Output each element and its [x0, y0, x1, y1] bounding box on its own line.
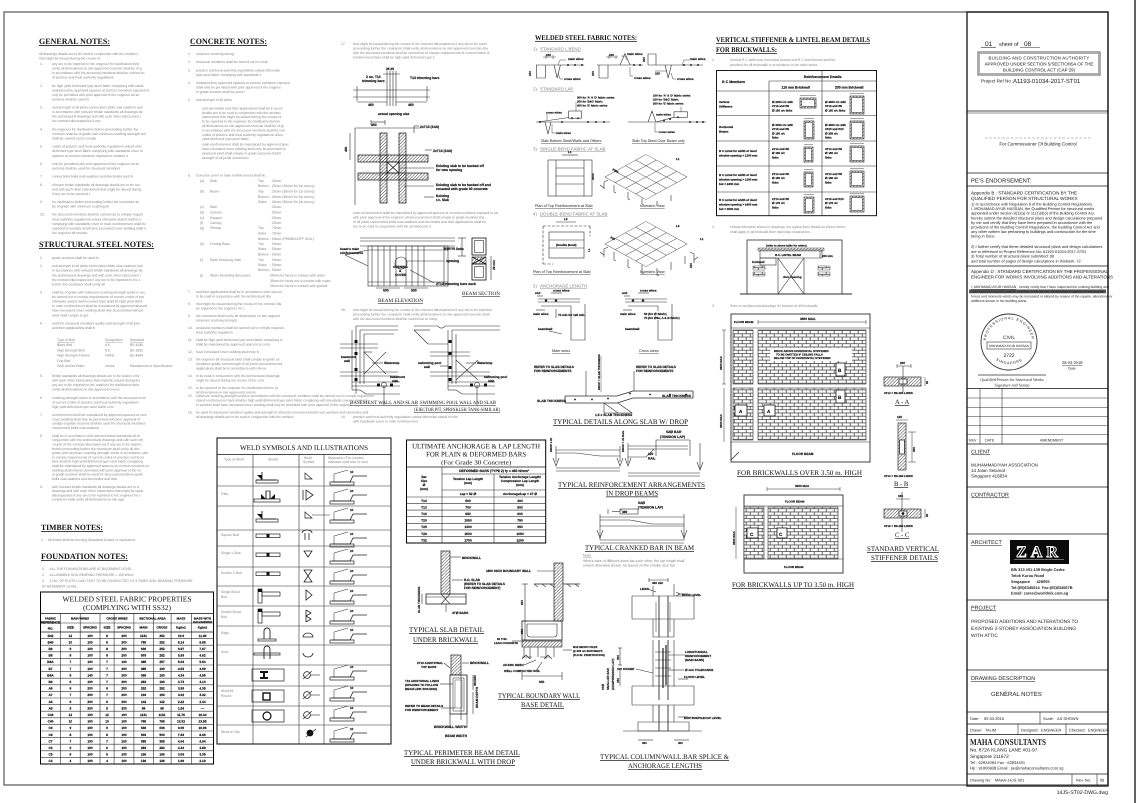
svg-text:98: 98: [142, 706, 146, 710]
svg-text:GENERAL NOTES:: GENERAL NOTES:: [39, 37, 110, 46]
svg-text:08: 08: [1024, 41, 1032, 48]
svg-text:2.: 2.: [188, 60, 191, 64]
svg-text:T16: T16: [421, 512, 427, 516]
svg-text:5: 5: [70, 706, 72, 710]
svg-text:Singapore 428005: Singapore 428005: [1011, 579, 1050, 584]
svg-text:C8: C8: [48, 733, 52, 737]
svg-text:7: 7: [70, 739, 72, 743]
stiffener note 1: [712, 58, 835, 67]
svg-text:TYPICAL PERIMETER BEAM DETAIL: TYPICAL PERIMETER BEAM DETAIL: [404, 749, 520, 757]
svg-text:6: 6: [106, 700, 108, 704]
svg-text:Tel : 62924094 Fax : 62934401: Tel : 62924094 Fax : 62934401: [970, 760, 1026, 765]
commissioner section: [967, 138, 1108, 173]
svg-text:links: links: [772, 155, 779, 159]
svg-text:2000: 2000: [591, 173, 595, 180]
svg-text:142: 142: [141, 700, 147, 704]
svg-text:3.32: 3.32: [199, 693, 205, 697]
svg-text:: 50mm (PREMIX/OFF SOIL): : 50mm (PREMIX/OFF SOIL): [270, 237, 314, 241]
svg-text:FOR REINFORCEMENT: FOR REINFORCEMENT: [405, 708, 439, 712]
figure: section C-C: [884, 492, 929, 539]
svg-text:Refer to architectural drawing: Refer to architectural drawings for loca…: [730, 304, 818, 308]
svg-text:5: 5: [106, 753, 108, 757]
svg-text:Bottom: Bottom: [258, 195, 269, 199]
svg-text:SWIMMING POOL WALL AND SLAB: SWIMMING POOL WALL AND SLAB: [420, 400, 497, 406]
svg-text:2xT13 (3A6): 2xT13 (3A6): [433, 149, 452, 153]
svg-text:used for structural members qu: used for structural members quality and …: [52, 321, 140, 325]
heading CONCRETE NOTES: [190, 37, 267, 46]
figure: section A-A: [884, 361, 929, 406]
svg-text:450: 450: [344, 146, 348, 152]
svg-text:: 25mm: : 25mm: [270, 179, 281, 183]
svg-text:to main reinforcement shall be: to main reinforcement shall be maintaine…: [52, 304, 148, 308]
svg-text:100: 100: [87, 713, 93, 717]
svg-text:1.5 x SLAB THICKNESS: 1.5 x SLAB THICKNESS: [595, 413, 633, 417]
svg-text:Reinforcement Details: Reinforcement Details: [804, 75, 842, 79]
svg-text:Sketch: Sketch: [268, 458, 278, 462]
svg-text:I, MOHAMAD AYUB HASSAN , hereb: I, MOHAMAD AYUB HASSAN , hereby certify …: [971, 285, 1109, 289]
svg-text:Concrete cover to main reinfor: Concrete cover to main reinforcement sha…: [196, 174, 267, 178]
svg-text:but < 3600 mm: but < 3600 mm: [719, 207, 740, 211]
svg-text:wall: wall: [423, 365, 430, 369]
svg-text:Hp : 91806938 Email : pe@mahac: Hp : 91806938 Email : pe@mahaconsultants…: [970, 766, 1063, 771]
heading GENERAL NOTES: [39, 37, 110, 46]
svg-text:4.: 4.: [40, 321, 43, 325]
svg-text:Butt: Butt: [221, 615, 227, 619]
note under cranked bar: [583, 554, 685, 568]
svg-text:3500 MAX: 3500 MAX: [719, 414, 723, 428]
svg-text:1.: 1.: [40, 62, 43, 66]
svg-text:wall: wall: [343, 359, 350, 363]
svg-text:75 (for ∅5s, A & B fabric): 75 (for ∅5s, A & B fabric): [644, 316, 680, 320]
heading WELDED STEEL FABRIC NOTES: [535, 34, 637, 42]
svg-text:600: 600: [520, 600, 524, 605]
svg-text:slab: slab: [392, 379, 398, 383]
svg-text:193: 193: [159, 680, 165, 684]
svg-text:R.C. LINTEL BEAM: R.C. LINTEL BEAM: [775, 253, 802, 257]
svg-text:of current codes of practice a: of current codes of practice and local a…: [52, 400, 139, 404]
svg-text:connections bolts nuts washers: connections bolts nuts washers: [52, 426, 99, 430]
svg-text:EXISTING 2-STOREY ASSOCIATION: EXISTING 2-STOREY ASSOCIATION BUILDING: [971, 626, 1076, 632]
svg-text:and strength of all joints: and strength of all joints: [196, 98, 232, 102]
figure: slab with drop refer details: [534, 354, 693, 417]
svg-text:252: 252: [159, 640, 165, 644]
svg-text:maintained by approved spacers: maintained by approved spacers at centre…: [52, 88, 150, 92]
svg-text:193: 193: [159, 673, 165, 677]
svg-text:7.: 7.: [40, 175, 43, 179]
svg-text:10: 10: [350, 706, 354, 710]
svg-text:3): 3): [533, 147, 537, 152]
svg-text:200: 200: [121, 693, 127, 697]
svg-text:structural steel shall comply: structural steel shall comply to grade s…: [202, 151, 281, 155]
svg-text:For Commissioner Of Building C: For Commissioner Of Building Control: [999, 142, 1076, 147]
svg-text:(mm): (mm): [516, 483, 524, 487]
svg-text:reinforcement bars shall be hi: reinforcement bars shall be high yield d…: [353, 56, 435, 60]
svg-text:FOR PLAIN & DEFORMED BARS: FOR PLAIN & DEFORMED BARS: [426, 451, 526, 459]
svg-text:19.34: 19.34: [199, 713, 207, 717]
svg-text:proceeding further the contrac: proceeding further the contractor shall …: [353, 313, 490, 317]
svg-text:9.09: 9.09: [178, 726, 184, 730]
svg-text:4: 4: [106, 759, 108, 763]
svg-text:636: 636: [159, 726, 165, 730]
svg-text:STANDARD LAP: STANDARD LAP: [540, 87, 573, 92]
svg-text:T28: T28: [421, 532, 427, 536]
svg-text:shall be carried out to comply: shall be carried out to comply: [52, 137, 96, 141]
svg-text:5: 5: [106, 706, 108, 710]
svg-text:provided for all brickwalls in: provided for all brickwalls in accordanc…: [730, 63, 818, 67]
figure: section B-B: [884, 415, 916, 488]
svg-text:100: 100: [87, 720, 93, 724]
svg-text:of all joints connections bolt: of all joints connections bolts nuts was…: [353, 220, 486, 224]
svg-text:Sides: Sides: [258, 263, 267, 267]
svg-text:Footing Base: Footing Base: [210, 242, 230, 246]
svg-text:AMENDMENT: AMENDMENT: [1040, 439, 1064, 443]
svg-text:A8: A8: [48, 687, 52, 691]
svg-text:(i): (i): [200, 258, 203, 262]
svg-text:100: 100: [87, 739, 93, 743]
svg-text:100: 100: [87, 680, 93, 684]
svg-text:FOR REINFORCEMENTS: FOR REINFORCEMENTS: [534, 369, 572, 373]
svg-text:Signature and Stamp: Signature and Stamp: [995, 383, 1030, 388]
svg-text:window opening < 1200 mm: window opening < 1200 mm: [718, 153, 758, 157]
svg-text:(TENSION LAP): (TENSION LAP): [660, 435, 685, 439]
svg-text:1131: 1131: [159, 713, 166, 717]
svg-text:TIMBER NOTES:: TIMBER NOTES:: [41, 523, 103, 532]
svg-text:with prior approval of the eng: with prior approval of the engineer all …: [353, 216, 484, 220]
svg-text:the architectural drawings and: the architectural drawings and with such…: [52, 115, 141, 119]
svg-text:cross wires: cross wires: [640, 289, 657, 293]
svg-text:r.c. Slab: r.c. Slab: [436, 198, 449, 202]
svg-text:the architectural drawings and: the architectural drawings and with such…: [52, 273, 141, 277]
svg-text:: 25mm: : 25mm: [270, 221, 281, 225]
svg-text:1. ALL THE FOUNDATIONS ARE: 1. ALL THE FOUNDATIONS ARE AT BASEMENT L…: [42, 567, 133, 571]
svg-text:Isometric View: Isometric View: [640, 204, 665, 208]
concrete note 17 text: [341, 42, 489, 60]
svg-text:2.44: 2.44: [199, 700, 205, 704]
svg-text:136: 136: [141, 759, 147, 763]
figure: brickwalls over 3.5m high: [719, 314, 870, 462]
svg-text:7.: 7.: [188, 290, 191, 294]
svg-text:MUHAMMADIYAH ASSOCIATION: MUHAMMADIYAH ASSOCIATION: [971, 463, 1038, 468]
svg-text:stated reinforcement bars shal: stated reinforcement bars shall be high …: [196, 398, 368, 402]
svg-text:ROOF LEVEL: ROOF LEVEL: [682, 593, 701, 597]
svg-text:6: 6: [70, 700, 72, 704]
svg-text:british standards all drawings: british standards all drawings details a…: [52, 374, 140, 378]
svg-text:Designation: Designation: [105, 338, 123, 342]
svg-text:shall be maintained by approve: shall be maintained by approved spacers …: [196, 342, 271, 346]
svg-text:785: 785: [159, 720, 165, 724]
svg-text:any are to be reported to the: any are to be reported to the engineer f…: [52, 62, 139, 66]
svg-text:BEAM SECTION: BEAM SECTION: [462, 291, 500, 297]
svg-text:main wires: main wires: [656, 113, 671, 117]
svg-text:FOR REINFORCEMENT): FOR REINFORCEMENT): [464, 586, 500, 590]
svg-text:200: 200: [642, 57, 646, 62]
consultants block: [967, 737, 1108, 774]
svg-text:crushing strength works in acc: crushing strength works in accordance wi…: [52, 396, 146, 400]
svg-text:have increased cover welding s: have increased cover welding shall only …: [52, 309, 143, 313]
table ULTIMATE ANCHORAGE & LAP LENGTH: [407, 440, 546, 543]
svg-text:forces and moments which may b: forces and moments which may be increase…: [971, 294, 1113, 298]
svg-text:600: 600: [517, 512, 523, 516]
svg-text:503: 503: [159, 733, 165, 737]
svg-text:1.99: 1.99: [178, 759, 184, 763]
svg-text:IN DROP BEAMS: IN DROP BEAMS: [606, 490, 658, 498]
svg-text:Date: Date: [1068, 367, 1076, 371]
svg-text:T25: T25: [421, 525, 427, 529]
title block frame: [967, 12, 1108, 786]
svg-text:6.: 6.: [40, 162, 43, 166]
svg-text:CIVIL: CIVIL: [1003, 335, 1015, 341]
svg-text:Horizontal: Horizontal: [719, 125, 733, 129]
svg-text:Plan of Top Reinforcement at S: Plan of Top Reinforcement at Slab: [535, 204, 593, 208]
svg-text:L1: L1: [676, 157, 680, 161]
svg-text:4.04: 4.04: [178, 739, 184, 743]
structural steel notes body low: [40, 413, 149, 502]
svg-text:sections shall be used for str: sections shall be used for structural me…: [52, 167, 121, 171]
svg-text:T20: T20: [421, 519, 427, 523]
svg-text:10: 10: [69, 720, 73, 724]
svg-text:450 min: 450 min: [652, 581, 663, 585]
svg-text:additions shown in the buildin: additions shown in the building plans.: [971, 299, 1027, 303]
svg-text:9: 9: [106, 726, 108, 730]
svg-text:SIZE: SIZE: [104, 626, 111, 630]
svg-text:10: 10: [350, 549, 354, 553]
svg-text:A1193-01034-2017-ST01: A1193-01034-2017-ST01: [1013, 78, 1081, 85]
svg-text:13.32: 13.32: [177, 720, 185, 724]
svg-text:450: 450: [368, 103, 374, 107]
svg-text:Butt: Butt: [221, 595, 227, 599]
svg-text:25: 25: [925, 513, 929, 517]
svg-text:8: 8: [106, 687, 108, 691]
svg-text:A8 BRC MESH: A8 BRC MESH: [503, 663, 524, 667]
svg-text:100: 100: [87, 746, 93, 750]
svg-text:Edge: Edge: [221, 631, 229, 635]
svg-text:4.35: 4.35: [199, 687, 205, 691]
svg-text:3.39: 3.39: [199, 753, 205, 757]
svg-text:10: 10: [350, 569, 354, 573]
svg-text:instructions that might be iss: instructions that might be issued during…: [202, 115, 281, 119]
svg-text:(COMPLYING WITH SS32): (COMPLYING WITH SS32): [83, 603, 172, 612]
svg-text:100: 100: [87, 660, 93, 664]
svg-text:98: 98: [160, 706, 164, 710]
svg-text:C7: C7: [48, 739, 52, 743]
svg-text:SIZE: SIZE: [67, 626, 74, 630]
svg-text:(mm): (mm): [420, 487, 428, 491]
svg-text:FLOOR BEAM: FLOOR BEAM: [792, 452, 814, 456]
svg-text:193: 193: [159, 693, 165, 697]
svg-text:Canopy: Canopy: [210, 221, 222, 225]
svg-text:75 min for 125 min: 75 min for 125 min: [558, 313, 585, 317]
svg-text:252: 252: [159, 634, 165, 638]
svg-text:cross wires: cross wires: [546, 111, 562, 115]
svg-text:9.: 9.: [40, 200, 43, 204]
svg-text:Fillet: Fillet: [221, 492, 228, 496]
svg-text:FLOOR LEVEL: FLOOR LEVEL: [684, 675, 705, 679]
svg-text:: 25mm: : 25mm: [270, 216, 281, 220]
svg-text:8: 8: [106, 733, 108, 737]
svg-text:8: 8: [70, 687, 72, 691]
svg-text:400: 400: [517, 499, 523, 503]
svg-text:Single Bevel: Single Bevel: [221, 590, 240, 594]
svg-text:385: 385: [159, 739, 165, 743]
figure: trimming bars at new opening (plan): [353, 67, 440, 116]
svg-text:12: 12: [69, 634, 73, 638]
svg-text:(R.D IN. PENETRATION): (R.D IN. PENETRATION): [573, 653, 605, 657]
timber note 1: [41, 538, 136, 542]
svg-text:COVER: COVER: [395, 273, 407, 277]
svg-text:7: 7: [106, 680, 108, 684]
svg-text:Grip Bolt: Grip Bolt: [57, 359, 70, 363]
svg-text:WELDED STEEL FABRIC NOTES:: WELDED STEEL FABRIC NOTES:: [535, 34, 637, 42]
svg-text:in accordance with relevant br: in accordance with relevant british stan…: [52, 269, 143, 273]
svg-text:11.69: 11.69: [199, 634, 207, 638]
svg-text:RAIL: RAIL: [648, 457, 655, 461]
figure: reinforcement arrangements in drop beams: [549, 430, 703, 476]
svg-text:(b): (b): [200, 190, 204, 194]
svg-text:to grade sections shall be use: to grade sections shall be used f: [196, 90, 245, 94]
svg-text:2.22: 2.22: [178, 700, 184, 704]
svg-text:16.: 16.: [188, 410, 193, 414]
PE endorsement section: [967, 178, 1108, 202]
svg-text:Top: Top: [258, 179, 264, 183]
svg-text:Weld on Site: Weld on Site: [221, 730, 240, 734]
svg-text:4.34: 4.34: [178, 673, 184, 677]
svg-text:: 30mm (30mm for 1st storey): : 30mm (30mm for 1st storey): [270, 200, 314, 204]
svg-text:10: 10: [350, 489, 354, 493]
svg-text:type steel fabric complying wi: type steel fabric complying with standar…: [196, 73, 262, 77]
svg-text:actual opening size: actual opening size: [378, 112, 409, 116]
figure: typical perimeter beam detail: [404, 655, 520, 766]
svg-text:Seal: Seal: [221, 650, 228, 654]
svg-text:L2: L2: [564, 217, 568, 221]
svg-text:750: 750: [517, 519, 523, 523]
svg-text:Appendix D : STANDARD CERTIFIC: Appendix D : STANDARD CERTIFICATION BY T…: [971, 269, 1109, 274]
svg-text:links: links: [825, 180, 832, 184]
svg-text:yield deformed type steel fabr: yield deformed type steel fabric: [202, 137, 249, 141]
svg-text:to be reported to the engineer: to be reported to the engineer for clari…: [196, 386, 279, 390]
svg-text:A7: A7: [48, 693, 52, 697]
svg-text:1500: 1500: [464, 532, 472, 536]
svg-text:to be read in conjunction with: to be read in conjunction with the archi…: [196, 374, 280, 378]
heading VERTICAL STIFFENER & LINTEL BEAM DETAILS: [716, 36, 870, 54]
table WELD SYMBOLS AND ILLUSTRATIONS: [217, 438, 391, 744]
dwg filename: [1057, 790, 1108, 796]
svg-text:Anchorage/Lap = 37 ∅: Anchorage/Lap = 37 ∅: [503, 492, 537, 496]
svg-text:4.89: 4.89: [199, 746, 205, 750]
svg-text:to be read in conjunction with: to be read in conjunction with the archi…: [196, 294, 271, 298]
svg-text:Bottom: Bottom: [258, 237, 269, 241]
svg-text:100: 100: [121, 733, 127, 737]
svg-text:200 min: 200 min: [822, 254, 833, 258]
svg-text:R10-75 links: R10-75 links: [444, 247, 464, 251]
svg-text:TALIM: TALIM: [985, 728, 996, 733]
contractor section: [967, 493, 1108, 535]
svg-text:only be permitted with prior a: only be permitted with prior approval of…: [52, 93, 140, 97]
svg-text:4.85: 4.85: [199, 673, 205, 677]
svg-text:100: 100: [121, 759, 127, 763]
svg-text:Scale:: Scale:: [1043, 716, 1054, 721]
figure: anchorage main wires: [533, 289, 585, 341]
svg-text:17.: 17.: [341, 42, 346, 46]
concrete cover list: [188, 174, 332, 289]
svg-text:125: 125: [897, 415, 902, 419]
svg-text:150: 150: [655, 72, 660, 76]
figure: brickwalls up to 3.5m high: [732, 484, 843, 573]
svg-text:beam/wall: beam/wall: [625, 327, 640, 331]
svg-text:4): 4): [533, 212, 537, 217]
svg-text:and strength of all joints con: and strength of all joints connections b…: [52, 106, 143, 110]
svg-text:sheet of: sheet of: [999, 42, 1019, 48]
svg-text:200 for 'E' fabric series: 200 for 'E' fabric series: [653, 102, 684, 106]
svg-text:140: 140: [87, 673, 93, 677]
svg-text:DEFORMED BARS (TYPE 2) fy = 46: DEFORMED BARS (TYPE 2) fy = 460 N/mm²: [459, 469, 530, 473]
heading STANDARD VERTICAL STIFFENER DETAILS: [867, 545, 939, 562]
svg-text:2): 2): [533, 87, 537, 92]
svg-text:8: 8: [70, 654, 72, 658]
svg-text:PE'S ENDORSEMENT:: PE'S ENDORSEMENT:: [971, 178, 1032, 185]
svg-text:50mm for faces in contact with: 50mm for faces in contact with ground: [270, 284, 327, 288]
svg-text:450: 450: [642, 741, 647, 745]
svg-text:recasted with grade 30 concret: recasted with grade 30 concrete: [436, 187, 488, 191]
svg-text:S2∅ BAR: S2∅ BAR: [666, 430, 682, 434]
svg-text:MAIN WIRES: MAIN WIRES: [71, 617, 89, 621]
svg-text:C5: C5: [48, 753, 52, 757]
svg-text:STANDARD VERTICAL: STANDARD VERTICAL: [867, 545, 939, 553]
svg-text:3.09: 3.09: [178, 753, 184, 757]
svg-text:05-03-2018: 05-03-2018: [984, 716, 1004, 721]
svg-text:1300: 1300: [464, 525, 472, 529]
drawing description section: [967, 676, 1108, 712]
svg-text:DROP < SLAB THICKNESS: DROP < SLAB THICKNESS: [597, 354, 601, 390]
svg-text:1.54: 1.54: [178, 706, 184, 710]
svg-text:B6A: B6A: [47, 673, 54, 677]
svg-text:ANCHORAGE LENGTHS: ANCHORAGE LENGTHS: [628, 762, 702, 770]
svg-text:Black Bolt: Black Bolt: [57, 343, 72, 347]
svg-text:BEAM WIDTH: BEAM WIDTH: [445, 734, 468, 738]
structural steel notes body top: [40, 256, 148, 330]
svg-text:7.: 7.: [40, 413, 43, 417]
svg-text:5.: 5.: [188, 98, 191, 102]
svg-text:verify all dimensions on site: verify all dimensions on site approved c…: [52, 388, 120, 392]
svg-text:undersigned structural conditi: undersigned structural condition and tha…: [971, 290, 1104, 294]
svg-text:BS 4604: BS 4604: [130, 354, 143, 358]
svg-text:(refer to above table for refe: (refer to above table for refers): [766, 244, 807, 248]
svg-text:4.10: 4.10: [199, 680, 205, 684]
svg-text:REFERENCE: REFERENCE: [41, 621, 60, 625]
svg-text:NO.: NO.: [48, 627, 54, 631]
svg-text:applications shall be in accor: applications shall be in accordance with…: [196, 366, 266, 370]
svg-text:reinforcements: reinforcements: [340, 251, 363, 255]
svg-text:7: 7: [106, 693, 108, 697]
svg-text:ENGINEER: ENGINEER: [1088, 728, 1109, 733]
svg-text:257: 257: [159, 660, 165, 664]
svg-text:7.67: 7.67: [199, 647, 205, 651]
svg-text:BUILDING AND CONSTRUCTION AUTH: BUILDING AND CONSTRUCTION AUTHORITY: [989, 56, 1090, 61]
svg-text:Singapore 418834: Singapore 418834: [971, 474, 1007, 479]
svg-text:unless otherwise shown, be bas: unless otherwise shown, be based on the …: [583, 564, 676, 568]
svg-text:500: 500: [411, 289, 417, 293]
svg-text:GENERAL NOTES: GENERAL NOTES: [991, 691, 1042, 698]
svg-text:cross wires: cross wires: [634, 76, 651, 80]
figure: beam section: [458, 238, 500, 297]
svg-text:beam/wall: beam/wall: [538, 327, 553, 331]
client section: [967, 450, 1108, 488]
svg-text:with standards cover to main r: with standards cover to main reinforceme…: [353, 420, 418, 424]
svg-text:3. 1 NO. OF PLATE LOAD TES: 3. 1 NO. OF PLATE LOAD TEST TO BE CONDUC…: [42, 579, 193, 583]
svg-text:C9: C9: [48, 726, 52, 730]
svg-text:Double Bevel: Double Bevel: [221, 610, 241, 614]
svg-text:28 min: 28 min: [492, 260, 496, 270]
svg-text:10: 10: [350, 589, 354, 593]
